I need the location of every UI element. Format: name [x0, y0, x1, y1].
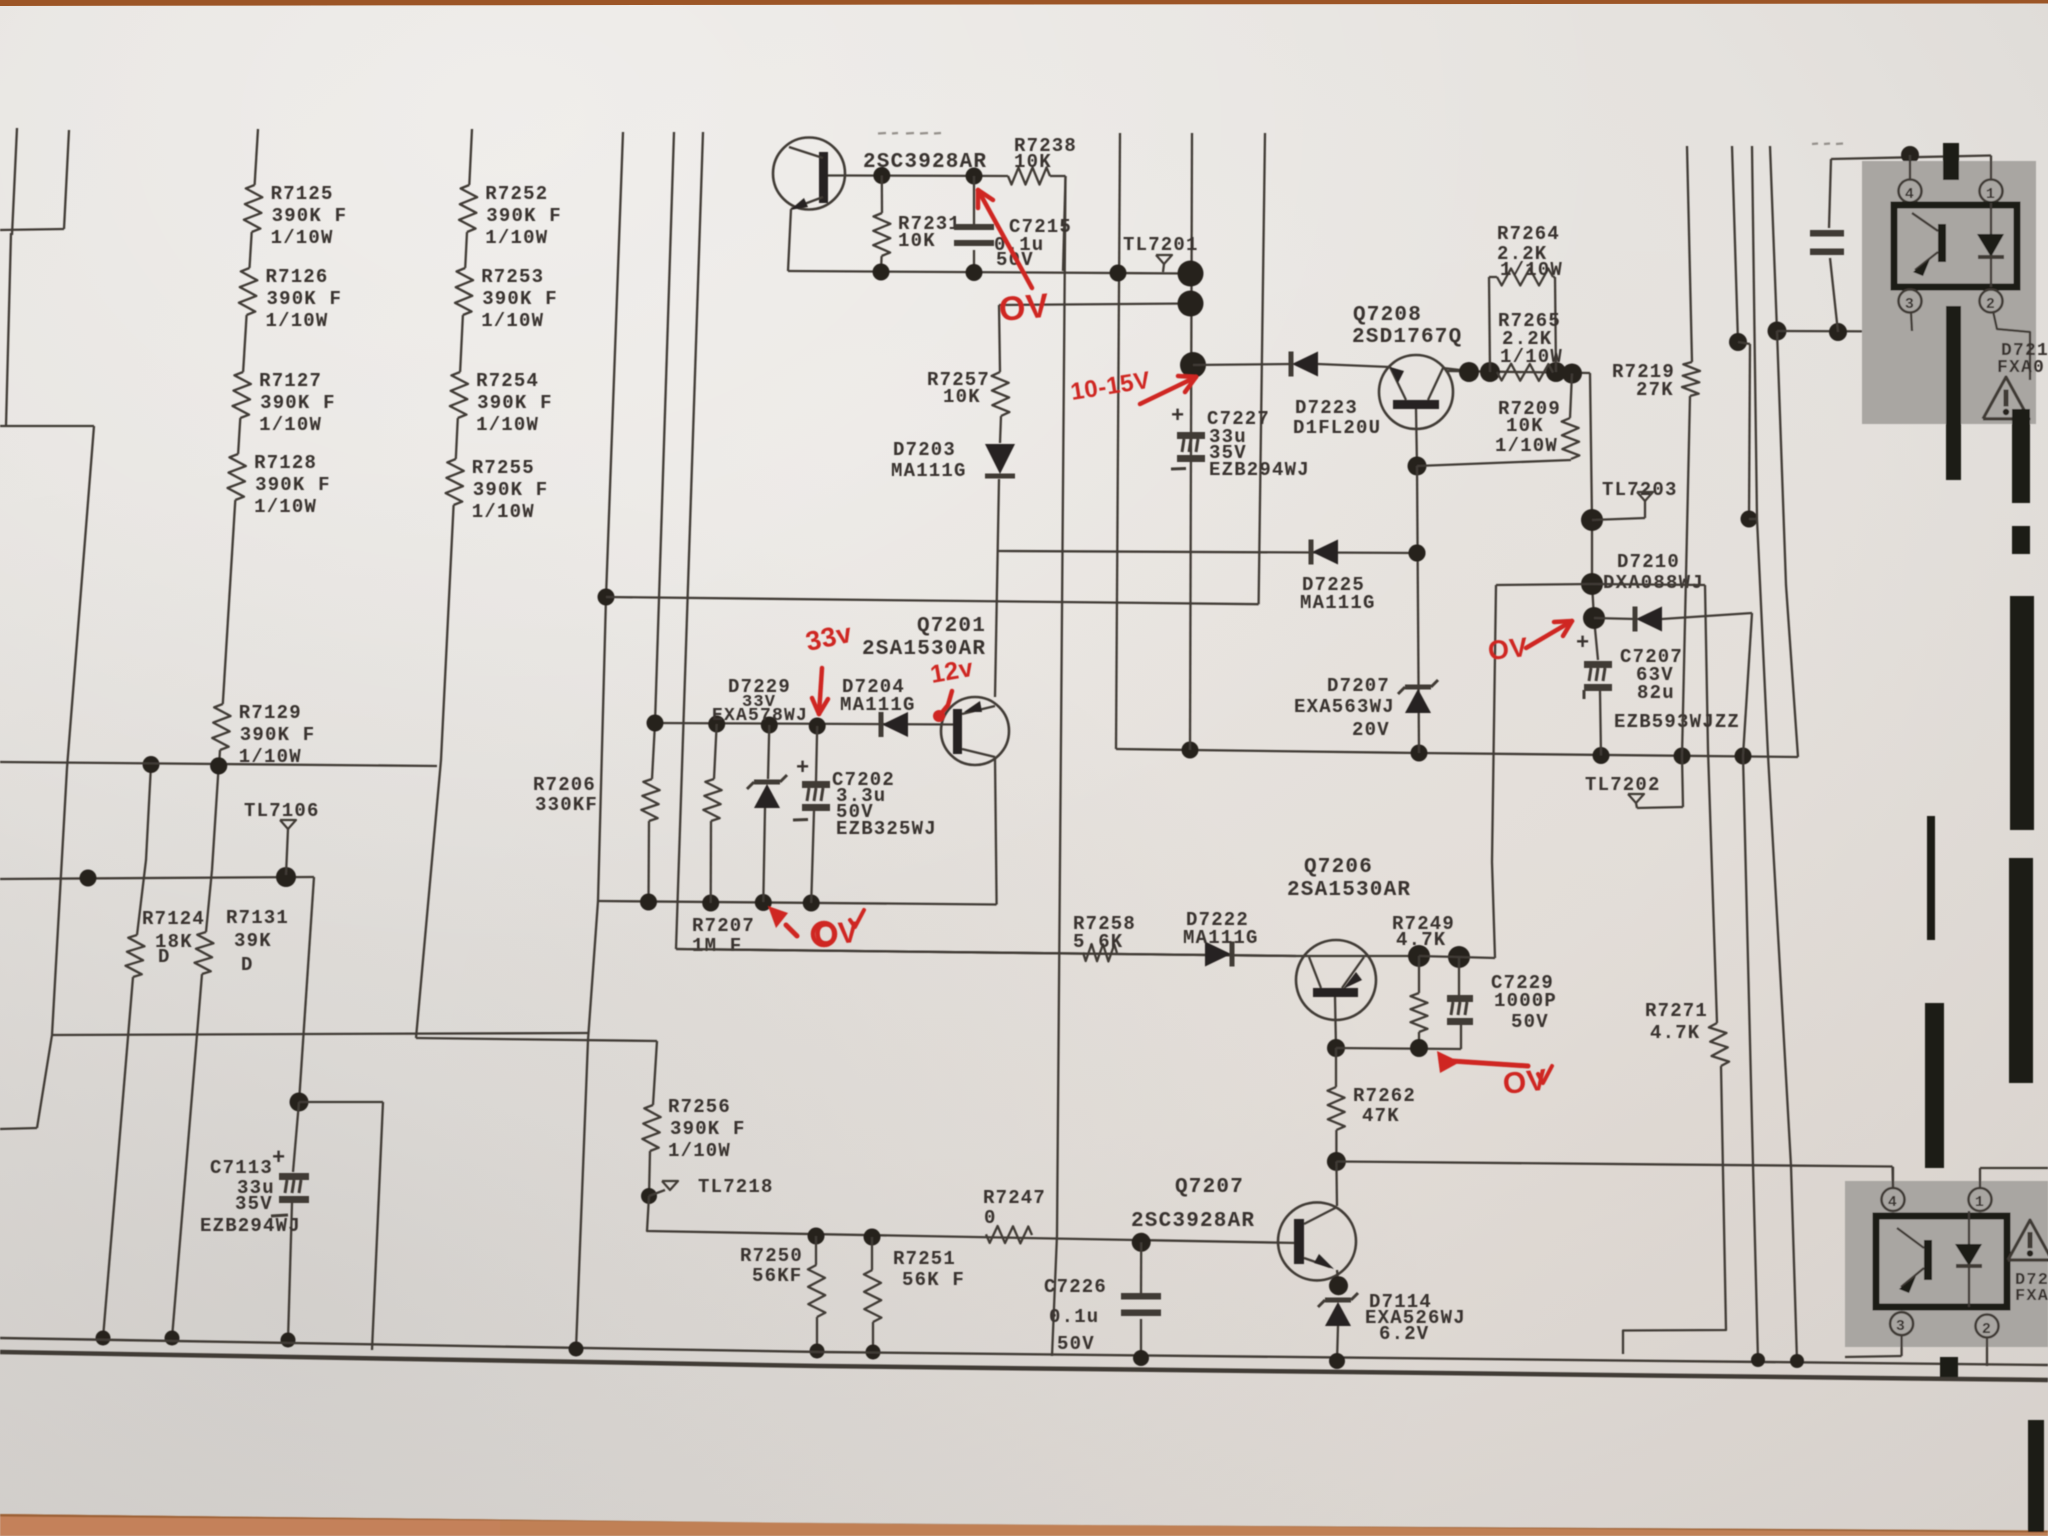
svg-text:DXA088WJ: DXA088WJ — [1603, 572, 1704, 594]
svg-text:1/10W: 1/10W — [472, 501, 535, 523]
svg-text:1/10W: 1/10W — [668, 1140, 731, 1162]
svg-text:EXA563WJ: EXA563WJ — [1294, 696, 1395, 718]
svg-text:2: 2 — [1982, 1321, 1992, 1338]
svg-text:390K F: 390K F — [670, 1118, 746, 1140]
svg-text:390K F: 390K F — [486, 205, 562, 227]
svg-text:390K F: 390K F — [272, 205, 348, 227]
svg-text:EZB593WJZZ: EZB593WJZZ — [1614, 711, 1740, 733]
svg-text:R7253: R7253 — [481, 266, 544, 288]
svg-text:2: 2 — [1986, 296, 1996, 313]
svg-text:C7113: C7113 — [210, 1157, 273, 1179]
svg-text:OV: OV — [997, 287, 1050, 329]
svg-text:R7256: R7256 — [668, 1096, 731, 1118]
svg-text:D7207: D7207 — [1327, 675, 1390, 697]
svg-text:1M F: 1M F — [692, 935, 742, 957]
svg-text:2SA1530AR: 2SA1530AR — [1287, 879, 1411, 902]
svg-text:+: + — [796, 756, 810, 781]
svg-text:+: + — [1171, 404, 1185, 429]
svg-text:1/10W: 1/10W — [259, 414, 322, 436]
svg-text:4.7K: 4.7K — [1396, 929, 1446, 951]
svg-text:39K: 39K — [234, 930, 272, 952]
svg-text:MA111G: MA111G — [891, 460, 967, 482]
svg-text:1/10W: 1/10W — [481, 310, 544, 332]
svg-text:5.6K: 5.6K — [1073, 931, 1123, 953]
svg-text:0: 0 — [984, 1207, 997, 1229]
svg-text:390K F: 390K F — [477, 392, 553, 414]
svg-text:4.7K: 4.7K — [1650, 1022, 1700, 1044]
svg-text:R7264: R7264 — [1497, 223, 1560, 245]
svg-text:56K F: 56K F — [902, 1269, 965, 1291]
svg-text:R7128: R7128 — [254, 452, 317, 474]
svg-text:MA111G: MA111G — [1300, 592, 1376, 614]
svg-text:D: D — [241, 954, 254, 976]
svg-text:0.1u: 0.1u — [1049, 1306, 1099, 1328]
svg-text:390K F: 390K F — [255, 474, 331, 496]
svg-text:4: 4 — [1905, 186, 1915, 203]
svg-text:35V: 35V — [235, 1193, 273, 1215]
svg-text:390K F: 390K F — [267, 288, 343, 310]
svg-text:1/10W: 1/10W — [266, 310, 329, 332]
svg-text:D7210: D7210 — [1617, 551, 1680, 573]
svg-text:R7126: R7126 — [266, 266, 329, 288]
svg-text:Q7206: Q7206 — [1304, 856, 1373, 879]
svg-text:2SC3928AR: 2SC3928AR — [1131, 1210, 1255, 1233]
svg-text:EXA578WJ: EXA578WJ — [712, 706, 808, 726]
svg-text:D1FL20U: D1FL20U — [1293, 417, 1381, 439]
svg-text:TL7218: TL7218 — [698, 1176, 774, 1198]
svg-text:2SD1767Q: 2SD1767Q — [1352, 326, 1462, 349]
svg-text:390K F: 390K F — [240, 724, 316, 746]
svg-text:R7129: R7129 — [239, 702, 302, 724]
svg-text:6.2V: 6.2V — [1379, 1323, 1429, 1345]
svg-text:82u: 82u — [1637, 682, 1675, 704]
svg-text:10K: 10K — [943, 386, 981, 408]
svg-text:OV: OV — [1486, 632, 1529, 666]
svg-text:R7252: R7252 — [485, 183, 548, 205]
svg-text:MA111G: MA111G — [840, 694, 916, 716]
svg-text:R7262: R7262 — [1353, 1085, 1416, 1107]
svg-text:+: + — [272, 1146, 286, 1171]
svg-text:R7254: R7254 — [476, 370, 539, 392]
svg-text:Q7208: Q7208 — [1353, 304, 1422, 327]
svg-text:R7207: R7207 — [692, 915, 755, 937]
svg-text:1: 1 — [1975, 1194, 1985, 1211]
svg-text:R7131: R7131 — [226, 907, 289, 929]
svg-text:D: D — [158, 946, 171, 968]
svg-text:R7255: R7255 — [472, 457, 535, 479]
svg-text:1/10W: 1/10W — [1500, 346, 1563, 368]
svg-text:4: 4 — [1888, 1194, 1898, 1211]
svg-text:+: + — [1576, 631, 1590, 656]
svg-text:Q7207: Q7207 — [1175, 1176, 1244, 1199]
svg-text:1/10W: 1/10W — [1500, 259, 1563, 281]
svg-text:D7223: D7223 — [1295, 397, 1358, 419]
svg-text:10K: 10K — [898, 230, 936, 252]
svg-text:R7271: R7271 — [1645, 1000, 1708, 1022]
svg-text:EZB294WJ: EZB294WJ — [1209, 459, 1310, 481]
svg-text:390K F: 390K F — [482, 288, 558, 310]
svg-text:TL7202: TL7202 — [1585, 774, 1661, 796]
svg-text:R7124: R7124 — [142, 908, 205, 930]
svg-text:R7247: R7247 — [983, 1187, 1046, 1209]
svg-text:10K: 10K — [1506, 415, 1544, 437]
svg-text:330KF: 330KF — [535, 794, 598, 816]
svg-text:TL7106: TL7106 — [244, 800, 320, 822]
svg-text:FXA: FXA — [2015, 1287, 2048, 1306]
svg-text:50V: 50V — [1511, 1011, 1549, 1033]
svg-text:R7250: R7250 — [740, 1245, 803, 1267]
svg-text:Q7201: Q7201 — [917, 615, 986, 638]
svg-text:50V: 50V — [1057, 1333, 1095, 1355]
svg-text:C7226: C7226 — [1044, 1276, 1107, 1298]
svg-text:3: 3 — [1905, 296, 1915, 313]
svg-text:1/10W: 1/10W — [476, 414, 539, 436]
svg-text:390K F: 390K F — [260, 392, 336, 414]
svg-text:1000P: 1000P — [1494, 990, 1557, 1012]
svg-text:1/10W: 1/10W — [271, 227, 334, 249]
svg-text:27K: 27K — [1636, 379, 1674, 401]
svg-text:FXA0: FXA0 — [1997, 358, 2045, 378]
svg-text:56KF: 56KF — [752, 1265, 802, 1287]
svg-text:R7251: R7251 — [893, 1248, 956, 1270]
svg-text:390K F: 390K F — [473, 479, 549, 501]
svg-text:20V: 20V — [1352, 719, 1390, 741]
svg-text:1/10W: 1/10W — [254, 496, 317, 518]
svg-text:1: 1 — [1986, 186, 1996, 203]
svg-text:EZB294WJ: EZB294WJ — [200, 1215, 301, 1237]
svg-text:TL7201: TL7201 — [1123, 234, 1199, 256]
svg-text:10K: 10K — [1014, 151, 1052, 173]
svg-text:1/10W: 1/10W — [485, 227, 548, 249]
svg-text:3: 3 — [1896, 1318, 1906, 1335]
svg-text:47K: 47K — [1362, 1105, 1400, 1127]
svg-text:D7203: D7203 — [893, 439, 956, 461]
svg-text:TL7203: TL7203 — [1602, 479, 1678, 501]
svg-text:R7127: R7127 — [259, 370, 322, 392]
svg-text:R7206: R7206 — [533, 774, 596, 796]
svg-text:1/10W: 1/10W — [239, 746, 302, 768]
svg-text:EZB325WJ: EZB325WJ — [836, 818, 937, 840]
svg-text:MA111G: MA111G — [1183, 927, 1259, 949]
svg-text:1/10W: 1/10W — [1495, 435, 1558, 457]
svg-text:R7125: R7125 — [271, 183, 334, 205]
